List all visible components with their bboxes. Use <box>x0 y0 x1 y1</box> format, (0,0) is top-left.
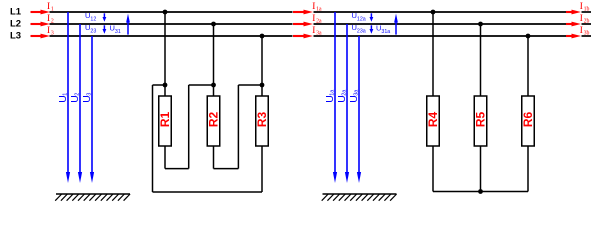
ground right <box>323 193 397 195</box>
junction dot L1 x433 <box>431 10 436 15</box>
current arrow I2 <box>31 23 43 25</box>
label U2 rotated <box>69 93 81 103</box>
svg-text:L2: L2 <box>10 18 21 29</box>
svg-text:3a: 3a <box>354 89 360 96</box>
voltage arrow U3a to ground <box>358 36 360 174</box>
wire R3 bottom stub <box>261 146 263 193</box>
svg-text:3: 3 <box>87 93 93 96</box>
resistor R5 <box>474 96 487 146</box>
junction dot L2 x480.5 <box>478 22 483 27</box>
wire R6 bottom stub <box>527 146 529 192</box>
svg-text:1a: 1a <box>316 6 322 12</box>
voltage arrow U31a <box>395 21 397 34</box>
label I2a <box>310 13 317 24</box>
svg-text:2: 2 <box>51 18 54 24</box>
current arrow I1 <box>31 11 43 13</box>
svg-text:23: 23 <box>90 29 96 35</box>
svg-text:31a: 31a <box>381 29 390 35</box>
svg-text:1a: 1a <box>330 89 336 96</box>
wire left vertical x152.5 <box>152 85 154 192</box>
voltage arrow U23a <box>370 25 372 30</box>
wire drop from L1 to delta node A <box>164 12 166 85</box>
svg-text:3a: 3a <box>316 30 322 36</box>
svg-text:R1: R1 <box>158 112 172 128</box>
svg-text:3: 3 <box>51 30 54 36</box>
wire node C jog left <box>238 84 262 86</box>
svg-text:31: 31 <box>115 29 121 35</box>
wire R3 top stub <box>261 85 263 96</box>
voltage arrow U12 <box>103 13 105 18</box>
label U2a rotated <box>336 89 348 103</box>
svg-text:3b: 3b <box>584 30 590 36</box>
svg-text:12a: 12a <box>357 17 366 23</box>
wire R2 bottom to node C leg <box>214 168 239 170</box>
label U1 rotated <box>57 93 69 103</box>
wire L2 segment right stub <box>582 23 592 25</box>
svg-text:R4: R4 <box>426 112 440 128</box>
wire L2 segment middle <box>314 23 567 25</box>
label U3 rotated <box>81 93 93 103</box>
svg-text:R5: R5 <box>474 112 488 128</box>
current arrow I3 <box>31 35 43 37</box>
current arrow I3a <box>293 35 305 37</box>
wire R4 bottom stub <box>432 146 434 192</box>
label U1a rotated <box>324 89 336 103</box>
svg-text:12: 12 <box>90 17 96 23</box>
wire L1 segment left <box>50 11 293 13</box>
current arrow I2a <box>293 23 305 25</box>
label I1b <box>578 1 585 12</box>
label I2b <box>578 13 585 24</box>
resistor R4 <box>427 96 440 146</box>
voltage arrow U23 <box>103 25 105 30</box>
wire R2 top stub <box>213 85 215 96</box>
wire L3 segment left <box>50 35 293 37</box>
wire node A jog left <box>153 84 166 86</box>
svg-text:R6: R6 <box>521 112 535 128</box>
current arrow I3b <box>566 35 573 37</box>
ground left <box>56 193 130 195</box>
label I3b <box>578 25 585 36</box>
voltage arrow U2 to ground <box>79 24 81 174</box>
voltage arrow U2a to ground <box>346 24 348 174</box>
wire R5 bottom stub <box>480 146 482 192</box>
wire delta bottom return <box>153 191 263 193</box>
wire drop from L1 to R4 <box>432 12 434 96</box>
resistor R1 <box>159 96 172 146</box>
wire R1 top stub <box>164 85 166 96</box>
wire drop from L3 to delta node C <box>261 36 263 85</box>
svg-text:1: 1 <box>51 6 54 12</box>
wire L1 segment right stub <box>582 11 592 13</box>
label I2 <box>45 13 52 24</box>
node B dot <box>211 83 216 88</box>
svg-text:2b: 2b <box>584 18 590 24</box>
wire star point bus <box>433 191 528 193</box>
svg-text:2: 2 <box>75 93 81 96</box>
resistor R6 <box>522 96 535 146</box>
wire node B jog left <box>189 84 214 86</box>
svg-text:1: 1 <box>63 93 69 96</box>
current arrow I2b <box>566 23 573 25</box>
junction dot L3 x528 <box>526 34 531 39</box>
label I3 <box>45 25 52 36</box>
voltage arrow U12a <box>370 13 372 18</box>
resistor R2 <box>207 96 220 146</box>
label I3a <box>310 25 317 36</box>
wire L1 segment middle <box>314 11 567 13</box>
wire drop from L2 to delta node B <box>213 24 215 85</box>
junction dot L2 x213.5 <box>211 22 216 27</box>
junction dot L1 x165 <box>163 10 168 15</box>
voltage arrow U3 to ground <box>91 36 93 174</box>
svg-text:L3: L3 <box>10 30 21 41</box>
voltage arrow U31 <box>127 21 129 34</box>
svg-text:2a: 2a <box>342 89 348 96</box>
node A dot <box>163 83 168 88</box>
star point junction dot <box>478 189 483 194</box>
wire drop from L3 to R6 <box>527 36 529 96</box>
wire R1 bottom stub <box>164 146 166 169</box>
wire L3 segment right stub <box>582 35 592 37</box>
voltage arrow U1a to ground <box>334 12 336 174</box>
wire drop from L2 to R5 <box>480 24 482 96</box>
resistor R3 <box>256 96 269 146</box>
current arrow I1a <box>293 11 305 13</box>
voltage arrow U1 to ground <box>67 12 69 174</box>
wire vertical x238.4 <box>237 85 239 169</box>
label I1 <box>45 1 52 12</box>
label I1a <box>310 1 317 12</box>
wire vertical x188.7 <box>188 85 190 169</box>
svg-text:2a: 2a <box>316 18 322 24</box>
wire L2 segment left <box>50 23 293 25</box>
wire R1 bottom to node B leg <box>165 168 189 170</box>
svg-text:R2: R2 <box>207 112 221 128</box>
wire R2 bottom stub <box>213 146 215 169</box>
svg-text:L1: L1 <box>10 6 22 17</box>
wire L3 segment middle <box>314 35 567 37</box>
label U3a rotated <box>348 89 360 103</box>
svg-text:R3: R3 <box>255 112 269 128</box>
current arrow I1b <box>566 11 573 13</box>
svg-text:1b: 1b <box>584 6 590 12</box>
svg-text:23a: 23a <box>357 29 366 35</box>
junction dot L3 x262 <box>260 34 265 39</box>
node C dot <box>260 83 265 88</box>
